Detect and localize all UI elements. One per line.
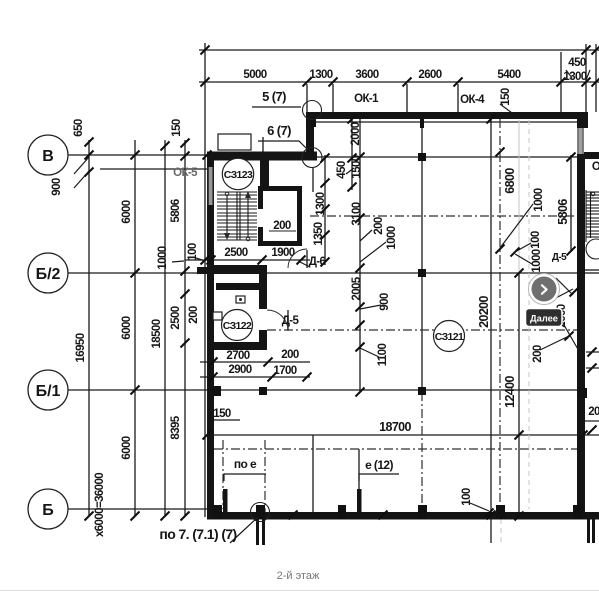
svg-text:2005: 2005 [351, 276, 363, 300]
bubble В [28, 135, 68, 175]
svg-text:Д-5: Д-5 [282, 315, 300, 327]
window double lines [208, 128, 583, 205]
100 bottom leader [470, 503, 489, 511]
svg-text:1500: 1500 [351, 155, 363, 178]
small box on left wall СЗ122 [213, 312, 222, 320]
20 underline right edge [585, 420, 599, 422]
axis below bubble2 [312, 168, 314, 192]
dim line x325 [324, 155, 326, 265]
elevator 200 underline [269, 230, 296, 232]
svg-text:по е: по е [234, 457, 257, 471]
bottom wall [207, 512, 599, 520]
СЗ122 right wall lower [259, 330, 267, 350]
wall stub x223 [223, 489, 228, 513]
svg-text:200: 200 [373, 217, 385, 235]
light gray guide lines [501, 120, 529, 543]
е (12) bracket [359, 474, 399, 481]
stair treads [217, 192, 257, 240]
svg-text:200: 200 [281, 349, 299, 361]
svg-text:2500: 2500 [224, 247, 247, 259]
columns [212, 119, 587, 519]
bubble Б [28, 489, 68, 529]
900 mid leader [360, 305, 381, 309]
column (422,513) [418, 505, 427, 519]
450 top leader [566, 70, 572, 78]
СЗ122 right wall upper [259, 265, 267, 309]
150 underline (222,420) [213, 419, 240, 421]
svg-text:Далее: Далее [530, 314, 558, 324]
200 right leader [540, 336, 569, 350]
900 left bracket [74, 157, 89, 174]
centerline horizontal y216 [310, 215, 578, 217]
centerline horizontal y449 [214, 448, 578, 450]
column (217,391) [212, 386, 221, 396]
right wall upper [577, 112, 588, 128]
svg-text:6000: 6000 [121, 316, 133, 339]
elevator shaft left wall lower [258, 227, 263, 246]
top extension x333 [332, 84, 334, 112]
interior column line x422 [421, 119, 423, 392]
svg-text:450: 450 [336, 161, 348, 179]
column (261,513) [256, 505, 265, 519]
horizontal dimension texts [159, 57, 599, 582]
top wall [306, 112, 588, 119]
svg-text:1350: 1350 [313, 222, 325, 245]
svg-text:2700: 2700 [226, 350, 249, 362]
button area leaders [556, 278, 573, 295]
svg-text:1700: 1700 [273, 365, 296, 377]
svg-text:2000: 2000 [350, 122, 362, 145]
top extension x407 [406, 84, 408, 112]
top dim line 1 [199, 49, 599, 51]
СЗ122 bottom wall [207, 342, 267, 350]
svg-text:СЗ123: СЗ123 [224, 169, 253, 181]
column (263,391) [259, 387, 267, 395]
line x313 lower [312, 435, 314, 517]
svg-text:150: 150 [500, 88, 512, 106]
column (583,393) [578, 388, 587, 398]
elevator shaft right wall [297, 186, 302, 246]
axis e line [358, 449, 360, 512]
1100 mid leader [360, 348, 379, 357]
dim line y362 [200, 361, 310, 363]
left extension line x205 [204, 43, 206, 517]
100 right leader [515, 243, 531, 252]
svg-text:О: О [592, 161, 599, 173]
top extension x307 [306, 84, 308, 112]
svg-text:450: 450 [568, 57, 586, 69]
leader lines [74, 70, 599, 543]
dim line x360 [359, 119, 361, 392]
right outer stub wall [584, 152, 599, 159]
column (578,513) [573, 505, 583, 519]
wall stub x357 [357, 489, 362, 513]
svg-text:6 (7): 6 (7) [267, 123, 291, 138]
svg-text:В: В [42, 148, 54, 165]
svg-text:1300: 1300 [309, 69, 332, 81]
svg-text:900: 900 [379, 293, 391, 311]
stair arrow down [226, 195, 228, 237]
svg-text:6000: 6000 [121, 436, 133, 459]
grid line Б/2 [68, 272, 207, 274]
left wall [207, 154, 214, 519]
svg-text:Б: Б [42, 502, 54, 519]
dim line 20200 x491 [490, 119, 492, 515]
top extension x586 [585, 44, 587, 112]
column (342,513) [338, 505, 346, 519]
centerline vertical x265 [264, 440, 266, 517]
sill line under top wall [314, 121, 577, 123]
svg-text:2600: 2600 [418, 69, 441, 81]
dim line 12400 x519 [518, 273, 520, 516]
svg-text:Б/2: Б/2 [36, 266, 61, 283]
svg-text:650: 650 [73, 119, 85, 137]
dim line 18700 y435 [207, 434, 599, 436]
д6 leader [300, 262, 310, 267]
svg-text:ОК-5: ОК-5 [173, 167, 198, 179]
stairwell bottom wall [207, 265, 267, 274]
dash-dot centerlines [214, 119, 578, 517]
column (422,157) [418, 153, 426, 161]
below-wall double walls [256, 519, 595, 545]
thin construction / grid lines [68, 43, 599, 543]
svg-text:3100: 3100 [351, 202, 363, 225]
по е bracket [224, 474, 266, 481]
stair divider [236, 192, 238, 240]
dim line 5806 x569 [570, 155, 572, 252]
svg-text:1300: 1300 [315, 192, 327, 215]
svg-text:16950: 16950 [75, 333, 87, 362]
left dim line x165 [164, 140, 166, 515]
window ОК-5 on left wall [207, 167, 209, 205]
column (422,391) [418, 387, 426, 395]
column (422,273) [418, 269, 426, 277]
svg-text:2-й этаж: 2-й этаж [277, 570, 320, 582]
svg-text:ОК-4: ОК-4 [460, 94, 485, 106]
centerline vertical x423 lower [421, 392, 423, 510]
room circles [222, 158, 465, 351]
svg-text:е (12): е (12) [365, 458, 393, 472]
grid line Б/1 [68, 389, 578, 391]
150 top right leader [500, 104, 512, 113]
svg-text:по 7. (7.1) (7): по 7. (7.1) (7) [159, 526, 236, 542]
svg-text:150: 150 [213, 408, 231, 420]
svg-text:200: 200 [532, 345, 544, 363]
svg-text:100: 100 [461, 488, 473, 506]
svg-text:150: 150 [171, 119, 183, 137]
svg-text:1100: 1100 [377, 344, 389, 367]
centerline horizontal y330 [267, 329, 578, 331]
svg-text:Б/1: Б/1 [36, 383, 61, 400]
svg-text:6000: 6000 [121, 200, 133, 223]
svg-text:Д-6: Д-6 [309, 256, 326, 268]
centerline vertical x223 [222, 440, 224, 509]
small bubbles [303, 101, 322, 120]
svg-text:5000: 5000 [243, 69, 266, 81]
svg-text:1000: 1000 [531, 249, 543, 272]
svg-text:20: 20 [588, 406, 599, 418]
svg-text:1000: 1000 [533, 188, 545, 211]
svg-text:100: 100 [530, 231, 542, 249]
svg-text:18700: 18700 [379, 420, 411, 434]
centerline vertical x500 [499, 119, 501, 510]
grid line Б [68, 508, 207, 510]
svg-text:12400: 12400 [503, 375, 517, 407]
WALLS [197, 112, 599, 520]
svg-text:5806: 5806 [170, 199, 182, 222]
grid bubbles [28, 135, 68, 529]
svg-text:100: 100 [187, 243, 199, 261]
200/1000 mid leaders [360, 230, 372, 241]
rotated dimension texts [51, 88, 570, 537]
small box with dot in СЗ122 [236, 296, 245, 303]
bubble Б/1 [28, 370, 68, 410]
dim line y258 stairs [185, 259, 310, 261]
dim line x352 [351, 119, 353, 190]
svg-text:СЗ121: СЗ121 [435, 331, 464, 343]
window stub (313,122) [311, 119, 316, 127]
grid line В inside room [314, 156, 577, 158]
stairwell top wall [207, 152, 317, 161]
stairwell inner wall upper [260, 154, 269, 186]
top dim line 2 [199, 81, 599, 83]
dim line y377 [200, 376, 310, 378]
450 mid leader [346, 168, 354, 174]
svg-text:2900: 2900 [228, 364, 251, 376]
door arc Д-5 [267, 310, 288, 331]
grid line Б/2 inside room [267, 272, 577, 274]
svg-text:18500: 18500 [151, 319, 163, 348]
svg-text:8395: 8395 [170, 415, 182, 439]
200 right-edge dims [586, 351, 599, 353]
column (500,513) [496, 505, 505, 519]
svg-text:1300: 1300 [563, 71, 586, 83]
bubble Б/2 [28, 253, 68, 293]
wall corner protrusion [197, 267, 207, 274]
svg-text:5 (7): 5 (7) [262, 89, 286, 104]
top extension x561 [560, 52, 562, 112]
below-wall line x491 [490, 517, 492, 543]
grid line В [68, 154, 207, 156]
right outer lines y270 [584, 269, 599, 271]
svg-text:5400: 5400 [497, 69, 520, 81]
stair arrow up [247, 194, 249, 238]
svg-text:20200: 20200 [477, 295, 491, 327]
svg-text:Д-5: Д-5 [552, 252, 567, 263]
svg-text:3600: 3600 [355, 69, 378, 81]
dimension ticks [85, 46, 599, 521]
right edge stair treads [586, 190, 599, 242]
1000 right leader [500, 204, 533, 248]
top-left wall jog [306, 112, 314, 157]
svg-text:900: 900 [51, 178, 63, 196]
elevator shaft top wall [258, 186, 302, 191]
по 7 leader [230, 517, 258, 543]
top extension x596 [595, 44, 597, 112]
svg-text:х6000=36000: х6000=36000 [94, 473, 106, 537]
left dim line x89 [88, 140, 90, 515]
svg-text:6800: 6800 [503, 168, 517, 194]
left dim line x135 [134, 140, 136, 515]
stair arrowheads [224, 233, 230, 240]
1000b right leader [515, 254, 532, 264]
bottom hairline [0, 590, 599, 592]
1000/100 left leaders [172, 261, 184, 262]
svg-text:200: 200 [273, 220, 291, 232]
svg-text:5806: 5806 [556, 199, 570, 225]
elevator shaft bottom wall [258, 241, 302, 246]
column (217,513) [212, 505, 222, 519]
door arc Д-6 [288, 249, 307, 268]
СЗ122 corridor bar [216, 283, 261, 290]
svg-text:2500: 2500 [170, 306, 182, 329]
svg-text:200: 200 [188, 306, 200, 324]
vestibule window line [262, 137, 264, 173]
svg-text:1000: 1000 [386, 226, 398, 249]
white window gaps [209, 167, 213, 205]
top extension x458 [457, 84, 459, 112]
Далее button [526, 274, 563, 327]
svg-text:СЗ122: СЗ122 [223, 320, 252, 332]
grid line В lower parallel [100, 168, 207, 170]
svg-text:1900: 1900 [271, 247, 294, 259]
5(7) underline [252, 106, 301, 108]
6(7) underline [258, 141, 307, 149]
stairwell vestibule rect [218, 134, 251, 150]
right wall main [577, 154, 585, 519]
left dim line x185 [184, 140, 186, 515]
window on right wall [577, 128, 579, 154]
svg-text:ОК-1: ОК-1 [354, 93, 379, 105]
elevator shaft left wall upper [258, 186, 263, 209]
svg-text:1000: 1000 [157, 246, 169, 269]
2000 right leader [560, 318, 583, 358]
window stub (422,122) [420, 119, 424, 128]
